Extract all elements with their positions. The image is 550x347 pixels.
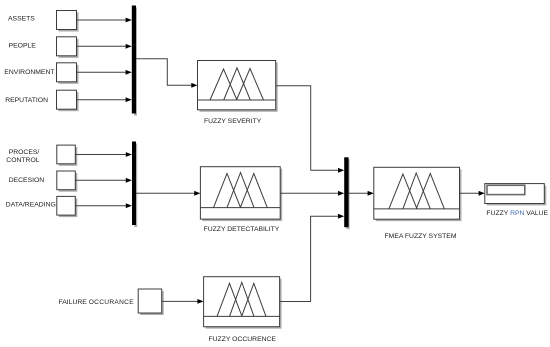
wire FUZZY SEVERITY to mux M3 xyxy=(276,86,345,173)
svg-text:FUZZY DETECTABILITY: FUZZY DETECTABILITY xyxy=(204,226,280,233)
wire mux M1 to FUZZY SEVERITY xyxy=(136,59,198,88)
svg-text:FMEA FUZZY SYSTEM: FMEA FUZZY SYSTEM xyxy=(385,233,457,240)
input block ASSETS xyxy=(57,11,79,32)
svg-text:PROCES/: PROCES/ xyxy=(9,149,40,156)
svg-text:DATA/READING: DATA/READING xyxy=(6,202,56,209)
wire PEOPLE to mux M1 xyxy=(77,44,132,49)
wire ASSETS to mux M1 xyxy=(77,18,132,23)
block FUZZY SEVERITY xyxy=(198,61,278,112)
input block FAILURE OCCURANCE xyxy=(138,289,164,315)
input block DECESION xyxy=(57,171,78,192)
svg-text:ASSETS: ASSETS xyxy=(8,16,35,23)
mux M1 xyxy=(132,6,137,116)
wire FMEA FUZZY SYSTEM to display xyxy=(460,191,485,196)
svg-text:FUZZY RPN VALUE: FUZZY RPN VALUE xyxy=(486,210,548,217)
block FUZZY DETECTABILITY xyxy=(200,167,282,221)
svg-text:FUZZY SEVERITY: FUZZY SEVERITY xyxy=(204,118,262,125)
wire FUZZY DETECTABILITY to mux M3 xyxy=(280,191,344,196)
svg-text:ENVIRONMENT: ENVIRONMENT xyxy=(4,69,54,76)
svg-text:REPUTATION: REPUTATION xyxy=(5,97,48,104)
svg-text:FUZZY OCCURENCE: FUZZY OCCURENCE xyxy=(209,336,277,343)
block FMEA FUZZY SYSTEM xyxy=(374,167,462,221)
svg-text:DECESION: DECESION xyxy=(9,177,45,184)
svg-text:CONTROL: CONTROL xyxy=(6,157,39,164)
wire PROCES/CONTROL to mux M2 xyxy=(75,152,132,157)
input block ENVIRONMENT xyxy=(57,63,79,84)
mux M3 xyxy=(344,157,349,229)
input block DATA/READING xyxy=(57,196,78,217)
block FUZZY OCCURENCE xyxy=(204,277,282,329)
display block FUZZY RPN VALUE xyxy=(485,184,547,206)
wire FUZZY OCCURENCE to mux M3 xyxy=(280,214,345,302)
svg-text:FAILURE OCCURANCE: FAILURE OCCURANCE xyxy=(59,299,135,306)
wire mux M3 to FMEA FUZZY SYSTEM xyxy=(349,191,374,196)
input block PEOPLE xyxy=(57,37,79,58)
wire ENVIRONMENT to mux M1 xyxy=(77,70,132,75)
input block REPUTATION xyxy=(57,90,79,111)
wire DATA/READING to mux M2 xyxy=(75,203,132,208)
wire REPUTATION to mux M1 xyxy=(77,97,132,102)
wire DECESION to mux M2 xyxy=(75,178,132,183)
input block PROCES/CONTROL xyxy=(57,145,78,166)
mux M2 xyxy=(132,142,137,228)
wire FAILURE OCCURANCE to FUZZY OCCURENCE xyxy=(162,299,204,304)
svg-text:PEOPLE: PEOPLE xyxy=(9,42,37,49)
wire mux M2 to FUZZY DETECTABILITY xyxy=(136,191,200,196)
